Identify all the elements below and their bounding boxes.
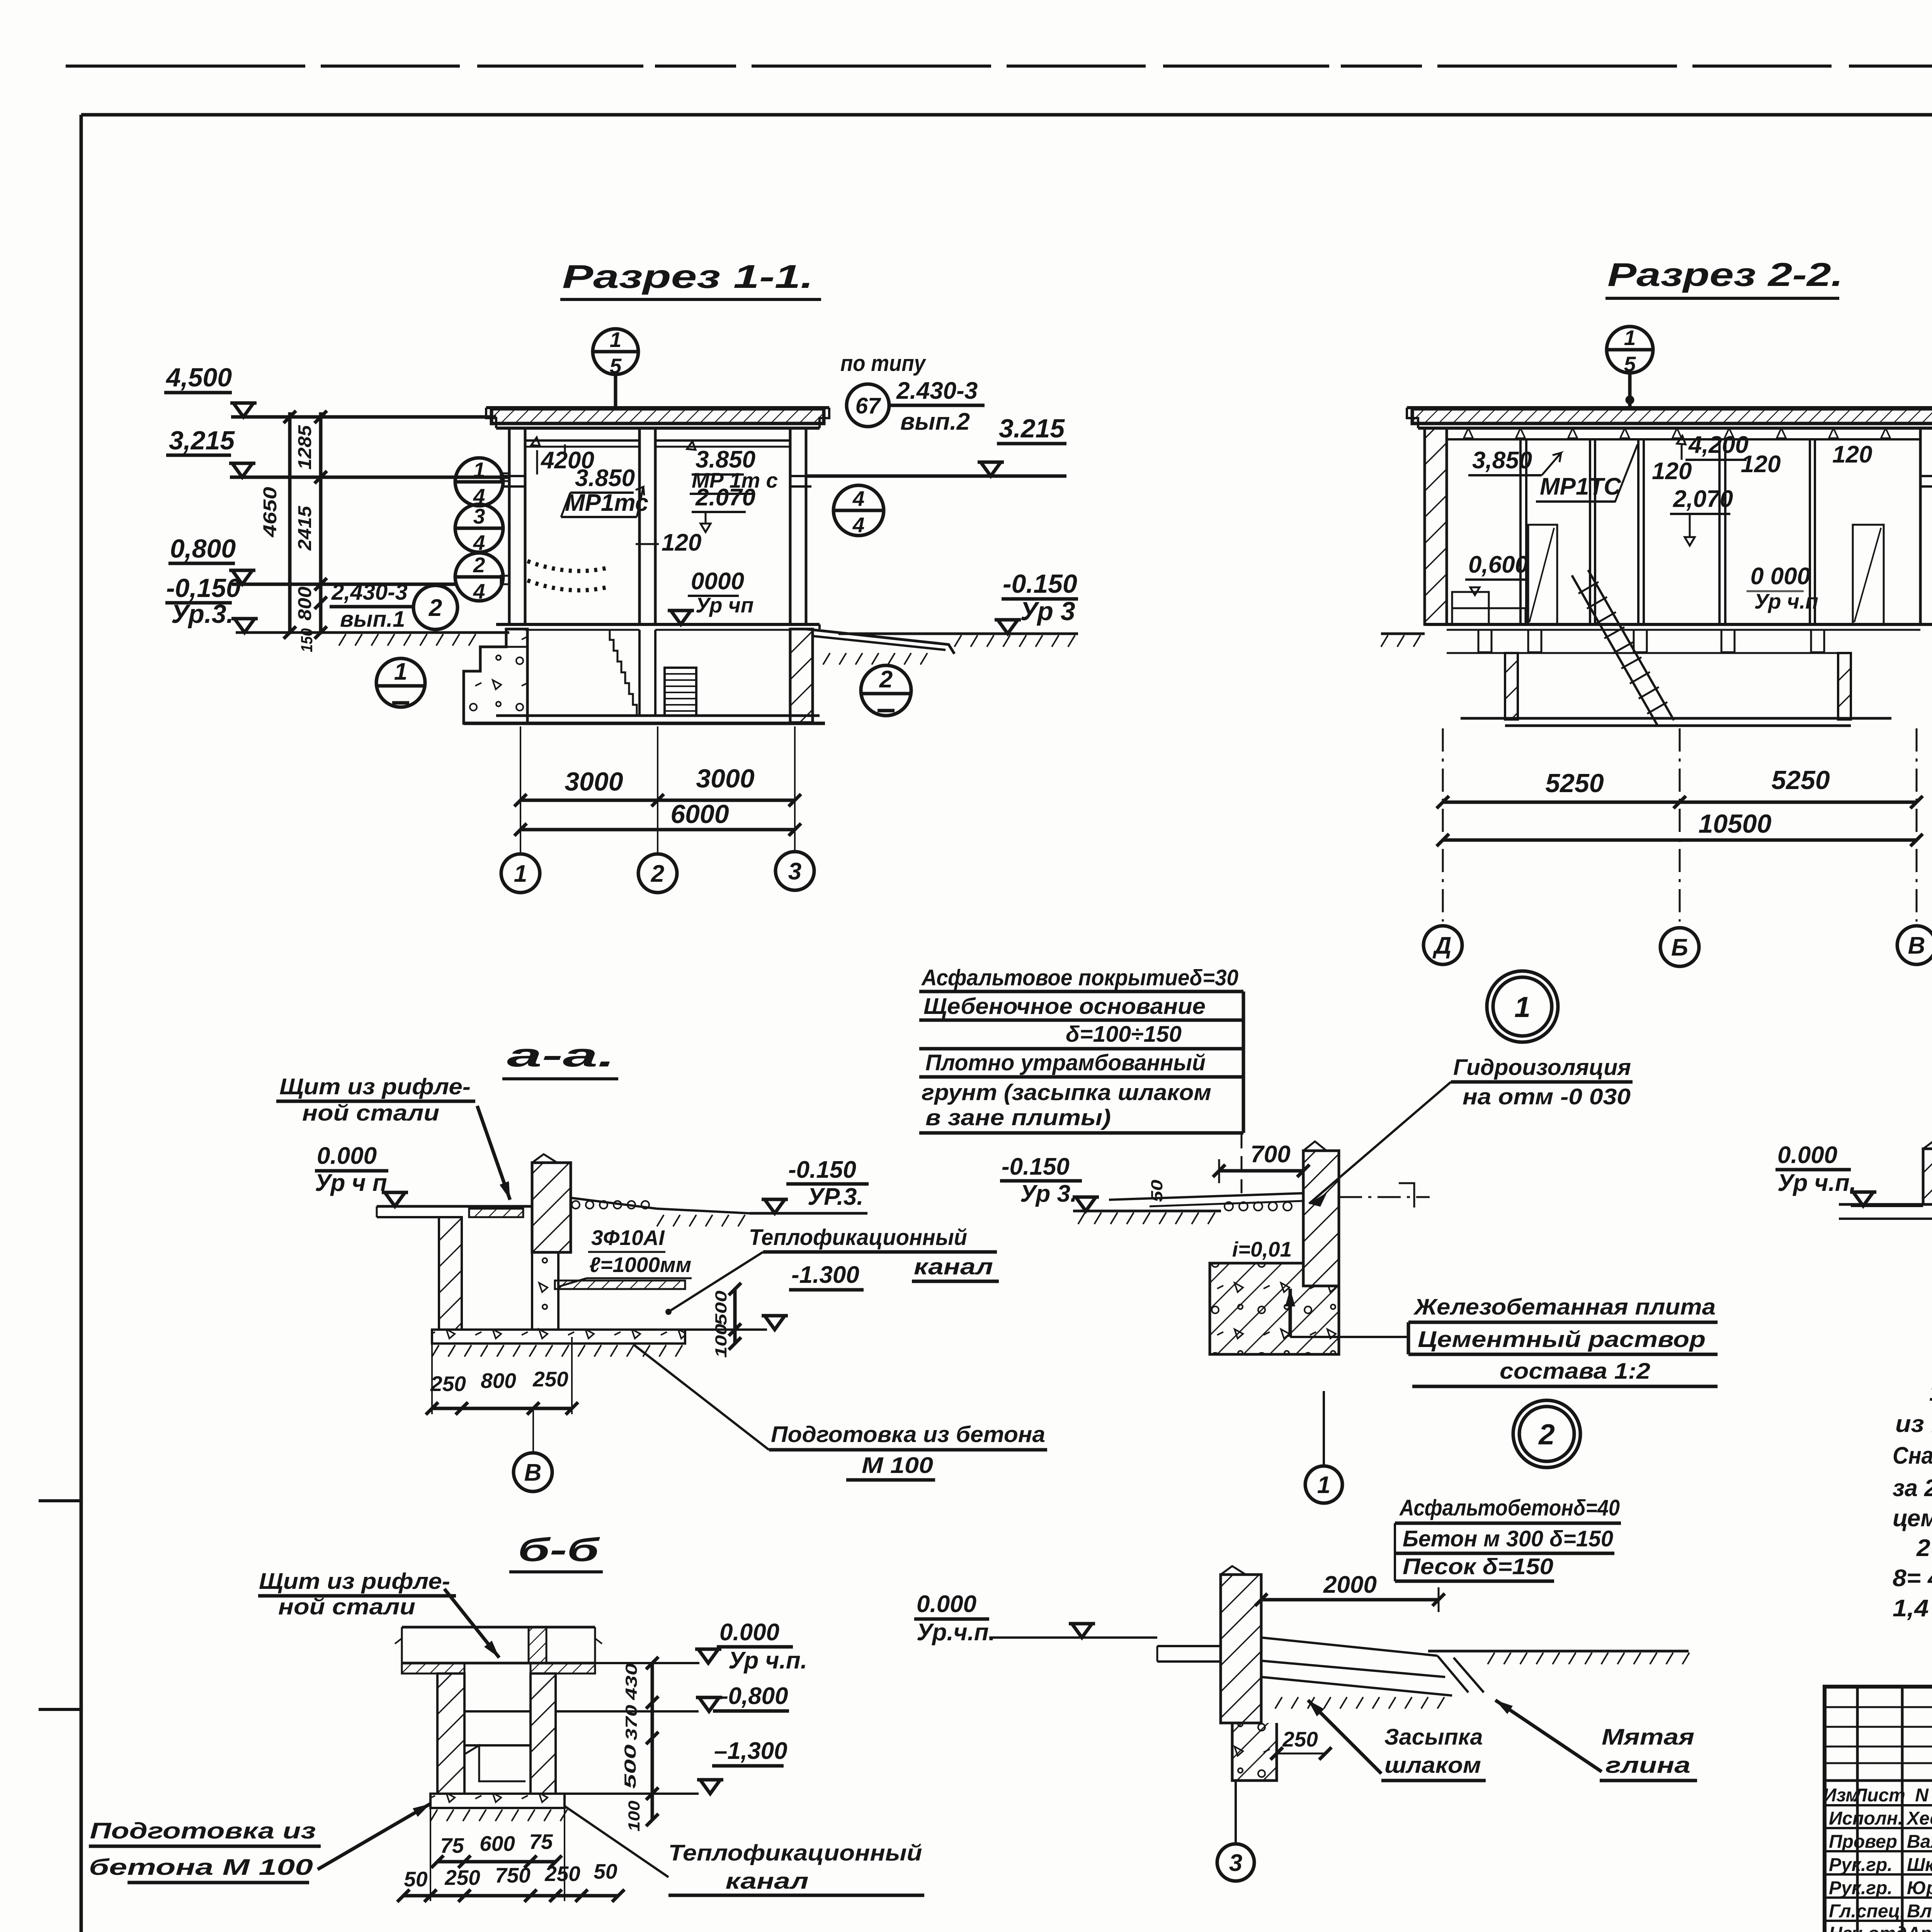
svg-text:Провер: Провер [1829,1832,1897,1852]
svg-text:-0.150: -0.150 [788,1156,856,1183]
svg-text:Рук.гр.: Рук.гр. [1829,1878,1893,1898]
svg-text:250: 250 [544,1862,580,1886]
svg-text:2: 2 [879,666,893,693]
svg-text:100: 100 [712,1324,730,1358]
svg-text:Б: Б [1671,934,1688,961]
svg-text:Шкляр: Шкляр [1907,1855,1932,1875]
svg-text:0 000: 0 000 [1750,563,1810,590]
svg-text:а-а.: а-а. [507,1037,615,1074]
svg-text:-1.300: -1.300 [791,1262,859,1288]
svg-text:Бетон м 300 δ=150: Бетон м 300 δ=150 [1403,1526,1613,1551]
svg-text:Железобетанная плита: Железобетанная плита [1413,1294,1716,1320]
svg-text:4650: 4650 [260,487,281,538]
svg-text:Гл.спец.: Гл.спец. [1829,1901,1905,1922]
svg-text:2: 2 [1538,1418,1555,1451]
svg-text:Д: Д [1432,932,1452,959]
svg-text:10500: 10500 [1698,809,1771,838]
svg-text:2: 2 [473,553,485,577]
svg-text:Теплофикационный: Теплофикационный [749,1225,967,1250]
svg-text:Цементный раствор: Цементный раствор [1418,1327,1706,1352]
svg-text:бетона М 100: бетона М 100 [89,1855,313,1880]
svg-text:6000: 6000 [670,799,729,829]
svg-text:Теплофикационный: Теплофикационный [668,1840,922,1866]
svg-text:2.430-3: 2.430-3 [896,378,978,404]
svg-text:4: 4 [852,486,865,510]
svg-text:Мятая: Мятая [1602,1725,1694,1750]
svg-text:2,430-3: 2,430-3 [331,580,408,605]
svg-text:50: 50 [404,1867,428,1891]
svg-text:-0.150: -0.150 [1002,1153,1070,1180]
svg-text:2: 2 [651,861,664,887]
svg-text:Подготовка из: Подготовка из [90,1818,316,1844]
svg-text:ной стали: ной стали [278,1594,415,1619]
svg-text:Плотно утрамбованный: Плотно утрамбованный [925,1050,1206,1075]
svg-text:Щит из рифле-: Щит из рифле- [279,1074,471,1099]
svg-text:по типу: по типу [840,351,926,376]
svg-text:Ур ч.п: Ур ч.п [1754,589,1818,613]
svg-text:Ур чп: Ур чп [696,593,753,617]
svg-text:250: 250 [444,1866,480,1889]
svg-text:100: 100 [625,1801,643,1832]
svg-text:Подготовка из бетона: Подготовка из бетона [771,1422,1045,1447]
svg-text:0.000: 0.000 [1777,1142,1837,1168]
svg-text:750: 750 [495,1863,531,1887]
svg-text:600: 600 [480,1832,515,1855]
svg-text:3.215: 3.215 [999,414,1065,443]
svg-text:2415: 2415 [295,505,315,551]
svg-text:800: 800 [295,587,315,621]
svg-text:5250: 5250 [1545,769,1604,798]
svg-text:1,4 кг.: 1,4 кг. [1893,1595,1932,1622]
svg-text:3,215: 3,215 [169,426,235,455]
svg-text:3,850: 3,850 [1472,447,1532,474]
svg-text:Ур 3.: Ур 3. [1020,1180,1077,1207]
svg-text:ной стали: ной стали [302,1100,439,1126]
svg-text:4: 4 [473,531,485,554]
svg-text:Власенка: Власенка [1907,1901,1932,1922]
svg-text:Ур.ч.п.: Ур.ч.п. [917,1619,995,1646]
svg-text:Разрез 2-2.: Разрез 2-2. [1607,257,1843,293]
svg-text:Важничая: Важничая [1907,1832,1932,1852]
svg-text:1: 1 [610,328,622,352]
svg-text:МР1тс: МР1тс [565,490,648,516]
svg-text:б-б: б-б [518,1532,600,1568]
svg-text:глина: глина [1605,1753,1690,1778]
svg-text:М 100: М 100 [862,1453,933,1478]
svg-text:канал: канал [914,1254,993,1279]
svg-text:370: 370 [622,1705,640,1740]
svg-text:4,500: 4,500 [165,363,232,392]
svg-text:800: 800 [481,1369,516,1393]
svg-text:500: 500 [621,1745,639,1789]
svg-text:Нач.отд: Нач.отд [1829,1923,1907,1932]
svg-text:120: 120 [1832,441,1872,468]
svg-text:0.000: 0.000 [719,1619,779,1646]
svg-text:Разрез 1-1.: Разрез 1-1. [562,259,813,295]
svg-text:состава 1:2: состава 1:2 [1500,1359,1650,1384]
svg-text:120: 120 [1741,451,1781,478]
svg-text:Ур ч п: Ур ч п [315,1170,387,1196]
svg-text:шлаком: шлаком [1384,1753,1481,1778]
svg-text:Асфальтобетонδ=40: Асфальтобетонδ=40 [1399,1495,1620,1520]
svg-text:3: 3 [473,504,485,528]
svg-text:3000: 3000 [696,764,754,793]
svg-text:Ур ч.п.: Ур ч.п. [728,1647,807,1674]
svg-text:Юрьева: Юрьева [1907,1878,1932,1898]
svg-text:вып.1: вып.1 [340,607,405,632]
svg-text:УР.3.: УР.3. [808,1184,864,1210]
svg-text:0,800: 0,800 [170,534,236,563]
svg-text:–0,800: –0,800 [715,1683,788,1709]
svg-text:1: 1 [394,658,407,685]
svg-text:канал: канал [726,1869,809,1894]
svg-text:Исполн.: Исполн. [1829,1808,1903,1829]
svg-text:0.000: 0.000 [917,1591,976,1617]
svg-text:В: В [1908,932,1925,959]
svg-text:250: 250 [430,1372,466,1396]
svg-text:4,200: 4,200 [1688,432,1748,458]
svg-text:2000: 2000 [1323,1571,1377,1598]
svg-text:грунт (засыпка шлаком: грунт (засыпка шлаком [922,1080,1211,1105]
svg-text:2,070: 2,070 [1673,486,1733,512]
svg-text:3: 3 [1229,1850,1242,1876]
svg-text:Рук.гр.: Рук.гр. [1829,1855,1893,1875]
svg-text:3: 3 [788,858,801,885]
svg-text:430: 430 [622,1663,640,1701]
svg-text:Снаружи поверхности стен об: Снаружи поверхности стен обмазать горячи… [1893,1442,1932,1469]
svg-text:3000: 3000 [565,767,623,796]
svg-text:500: 500 [712,1291,730,1325]
svg-text:Ур ч.п.: Ур ч.п. [1777,1170,1856,1196]
svg-text:за 2 раза по грунтовке, изнутр: за 2 раза по грунтовке, изнутри оштукату… [1893,1475,1932,1502]
svg-text:5250: 5250 [1771,765,1830,795]
svg-text:МР1ТС: МР1ТС [1540,473,1621,500]
svg-text:150: 150 [298,628,316,652]
svg-text:из кирпича М 75 на цементно: из кирпича М 75 на цементном растворе М … [1895,1411,1932,1437]
svg-text:-0,150: -0,150 [166,573,241,603]
svg-text:Гидроизоляция: Гидроизоляция [1453,1055,1631,1080]
svg-text:Щит из рифле-: Щит из рифле- [259,1569,450,1594]
svg-text:В: В [524,1459,542,1486]
svg-text:120: 120 [662,529,701,556]
svg-text:8= 4мм 850х800 – 22,8 кг,: 8= 4мм 850х800 – 22,8 кг, полоса – 50х5 … [1893,1565,1932,1592]
svg-text:–1,300: –1,300 [714,1738,787,1764]
svg-text:цементной штукатуркой слоем: цементной штукатуркой слоем толщиной 10 … [1893,1505,1932,1532]
svg-text:1285: 1285 [295,425,315,469]
svg-text:1: 1 [473,458,485,482]
svg-text:Песок δ=150: Песок δ=150 [1403,1554,1553,1579]
svg-text:ℓ=1000мм: ℓ=1000мм [589,1253,691,1277]
svg-text:Ур 3: Ур 3 [1020,597,1075,626]
svg-text:75: 75 [440,1833,464,1857]
svg-text:δ=100÷150: δ=100÷150 [1066,1022,1182,1047]
svg-text:на отм -0 030: на отм -0 030 [1463,1084,1631,1109]
svg-text:3Ф10АI: 3Ф10АI [591,1226,665,1250]
svg-text:в зане плиты): в зане плиты) [925,1105,1111,1130]
svg-text:Арсенов: Арсенов [1906,1923,1932,1932]
svg-text:0000: 0000 [691,568,744,595]
svg-text:Щебеночное основание: Щебеночное основание [923,994,1206,1019]
svg-text:50: 50 [594,1859,617,1883]
svg-text:4: 4 [473,579,485,603]
svg-text:1. Стены теплофикационного п: 1. Стены теплофикационного приямка выпол… [1929,1379,1932,1406]
svg-text:3.850: 3.850 [575,465,635,492]
svg-text:i=0,01: i=0,01 [1232,1237,1292,1261]
svg-text:250: 250 [1282,1727,1318,1751]
svg-text:1: 1 [1624,326,1636,350]
svg-text:700: 700 [1250,1141,1290,1168]
svg-text:Асфальтовое покрытиеδ=30: Асфальтовое покрытиеδ=30 [921,965,1238,990]
svg-text:Засыпка: Засыпка [1384,1725,1483,1750]
svg-text:250: 250 [532,1367,568,1391]
svg-text:Хесина: Хесина [1906,1808,1932,1829]
svg-text:1: 1 [1514,991,1531,1023]
svg-text:2: 2 [429,595,442,621]
svg-text:1: 1 [1317,1472,1330,1498]
svg-text:0.000: 0.000 [317,1143,377,1169]
svg-text:2.070: 2.070 [695,484,755,511]
svg-text:0,600: 0,600 [1468,551,1528,578]
svg-text:75: 75 [529,1830,553,1854]
svg-text:Лист: Лист [1853,1785,1905,1806]
svg-text:N докум.: N докум. [1915,1785,1932,1806]
svg-text:2 Расход металла на щит:: 2 Расход металла на щит: рифленая сталь [1916,1535,1932,1561]
svg-text:вып.2: вып.2 [900,408,970,435]
svg-text:4: 4 [852,513,865,537]
svg-text:Ур.3.: Ур.3. [171,599,234,629]
svg-text:Изм: Изм [1823,1785,1859,1806]
svg-text:5: 5 [610,354,622,378]
svg-text:-0.150: -0.150 [1003,569,1077,599]
svg-text:1: 1 [514,861,527,887]
svg-text:5: 5 [1624,352,1636,376]
svg-text:67: 67 [855,393,881,418]
svg-text:120: 120 [1652,458,1692,485]
